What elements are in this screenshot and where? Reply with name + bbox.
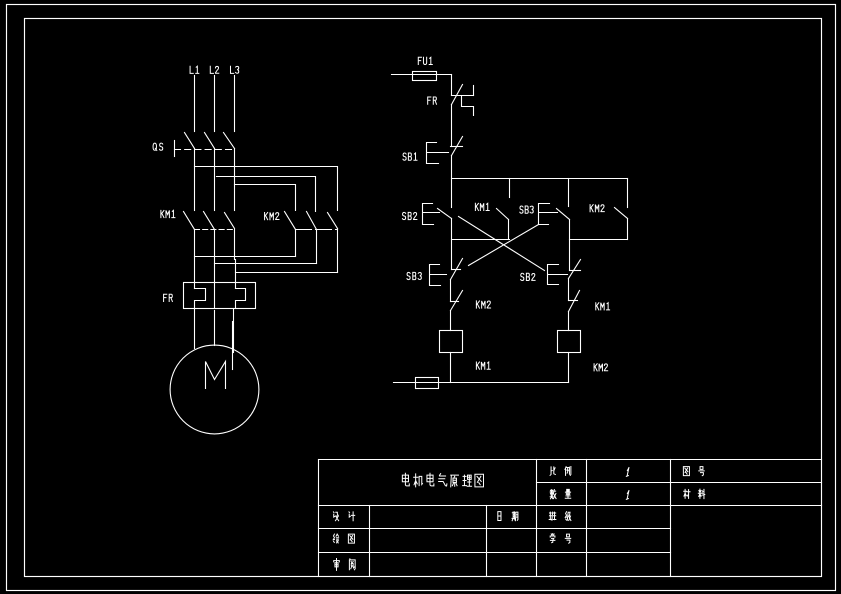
contact KM2 aux top wire [627, 179, 629, 208]
wire self-hold junction right [570, 239, 628, 241]
title block column date divider [486, 506, 488, 577]
title block row divider design-draw [319, 528, 671, 530]
disconnect switch QS blade pole 2 [205, 133, 215, 149]
title block row divider draw-review [319, 552, 671, 554]
disconnect switch QS linkage dashed [175, 149, 236, 151]
wire KM2 pole 3 return to output 3 [236, 272, 338, 274]
title text drawing name 电机电气原理图 [402, 473, 483, 487]
wire KM1 pole 3 down to FR [235, 230, 236, 289]
contactor KM2 blade pole 2 [307, 212, 317, 230]
wire FR to motor phase 2 [214, 311, 216, 346]
wire phase L3 drop [234, 76, 236, 132]
label KM1 aux [475, 203, 489, 210]
label FR control [428, 97, 437, 104]
wire KM1 pole 1 down to FR [194, 230, 196, 289]
wire phase L2 drop [214, 76, 216, 132]
title block column scale-left divider [536, 460, 538, 577]
label L3 [230, 66, 238, 73]
wire rail L1 to KM2 pole 3 [195, 167, 338, 211]
label KM2 power [265, 213, 279, 220]
contact KM2 aux blade [615, 208, 628, 219]
wire KM2 pole 1 return to output 1 [195, 256, 296, 258]
label FR power [164, 294, 173, 301]
wire SB2 down through junction [451, 219, 453, 270]
interlock linkage diagonal SB2 [459, 217, 545, 271]
label SB2 right [521, 273, 535, 280]
thermal relay FR NC contact blade [452, 85, 463, 105]
label QS [153, 143, 163, 150]
motor M circle [170, 345, 259, 434]
wire L3 QS to KM1 [234, 149, 236, 211]
contactor KM1 blade pole 1 [184, 212, 195, 230]
label 学号 student number [550, 534, 571, 544]
wire KM1 pole 2 down to FR [214, 230, 216, 309]
contactor KM1 blade pole 3 [225, 213, 235, 229]
label 比例 scale [550, 466, 571, 475]
label FU1 [418, 57, 432, 64]
contact KM1 NC interlock bar right [569, 300, 578, 302]
contactor KM2 blade pole 3 [328, 213, 338, 229]
label 设计 design [333, 512, 354, 521]
wire bottom rail [394, 382, 569, 384]
wire stub phase 3 overdraw [232, 322, 234, 370]
label 数量 quantity [550, 489, 571, 499]
label SB1 [403, 153, 417, 160]
pushbutton SB2 NC blade right [569, 260, 581, 279]
wire FR to motor phase 3 [233, 309, 235, 353]
pushbutton SB2 actuator bracket right [548, 265, 568, 285]
wire SB1 to top rail and SB2 [451, 156, 453, 208]
thermal relay FR box [184, 283, 256, 309]
label KM2 interlock [476, 301, 490, 308]
wire KM2 pole 2 down [316, 230, 318, 264]
thermal relay FR NC contact bar [452, 95, 474, 97]
wire control supply left [392, 74, 452, 76]
pushbutton SB3 actuator bracket right [539, 204, 558, 225]
label SB2 left [402, 212, 416, 219]
label coil KM2 [594, 364, 608, 371]
wire KM2 NC to coil KM1 [450, 311, 452, 331]
wire right branch top [568, 179, 570, 207]
wire coil KM1 to bottom rail [450, 353, 452, 383]
wire L1 QS to KM1 [194, 149, 196, 211]
motor letter M strokes [206, 362, 226, 389]
wire FR to motor phase 1 [194, 309, 196, 349]
title block column drawingno divider [670, 460, 672, 577]
interlock linkage diagonal SB3 [469, 225, 539, 266]
contact KM2 NC interlock blade [451, 291, 463, 311]
thermal relay FR heater element phase 1 [195, 289, 206, 309]
contactor KM1 linkage dashed [195, 229, 236, 231]
contact KM1 aux top wire [509, 179, 511, 198]
contactor KM2 linkage dashed [296, 229, 338, 231]
wire self-hold junction left [452, 239, 510, 241]
contactor KM1 blade pole 2 [204, 212, 215, 230]
pushbutton SB2 actuator bracket [423, 204, 440, 225]
contactor KM2 blade pole 1 [285, 212, 296, 230]
pushbutton SB3 NO blade right [557, 209, 570, 220]
label KM1 power [161, 210, 175, 217]
label coil KM1 [476, 362, 490, 369]
wire SB3 right down through junction [569, 220, 571, 271]
fuse bottom body [416, 378, 439, 389]
disconnect switch QS blade pole 1 [185, 133, 195, 149]
contact KM2 NC interlock bar [451, 301, 459, 303]
label KM2 aux [590, 205, 604, 212]
pushbutton SB3 actuator bracket left [430, 265, 447, 286]
wire SB3 NC to KM2 NC [450, 280, 452, 302]
label SB3 left [407, 272, 421, 279]
wire rail L2 to KM2 pole 2 [217, 177, 316, 212]
label 日期 date [498, 512, 518, 521]
label SB3 right [520, 206, 533, 213]
wire FU1 corner down [451, 75, 453, 96]
wire top rail [452, 178, 628, 180]
label KM1 interlock [596, 303, 610, 310]
contact KM1 NC interlock blade right [569, 291, 580, 312]
pushbutton SB1 blade [452, 137, 463, 156]
pushbutton SB2 NO blade [438, 209, 452, 219]
label 材料 material [684, 489, 705, 499]
title block column label divider [369, 506, 371, 577]
title block column value divider [586, 460, 588, 577]
thermal relay FR NC contact release hook [462, 96, 474, 116]
label L1 [190, 66, 199, 73]
value scale 1 [626, 468, 629, 477]
disconnect switch QS blade pole 3 [224, 133, 235, 149]
wire KM2 pole 3 down [337, 229, 339, 273]
coil KM1 box [440, 331, 463, 353]
disconnect switch QS actuator bar [174, 141, 176, 157]
wire FR to SB1 [451, 105, 453, 147]
label 图号 drawing number [683, 467, 704, 476]
pushbutton SB3 NC blade left [451, 259, 463, 280]
contact KM2 aux bottom wire [627, 219, 629, 240]
fuse FU1 body [413, 72, 437, 81]
pushbutton SB1 contact bar [451, 146, 463, 148]
wire KM1 NC to coil KM2 [568, 312, 570, 331]
thermal relay FR heater element phase 3 [236, 289, 246, 309]
label L2 [210, 66, 218, 73]
pushbutton SB2 NC contact bar right [570, 270, 581, 272]
title block left edge [318, 460, 320, 577]
wire L2 QS to KM1 [214, 149, 216, 211]
pushbutton SB3 NC contact bar left [452, 269, 461, 271]
label 班级 class [549, 512, 571, 521]
title block top edge [319, 459, 822, 461]
wire coil KM2 to bottom rail [568, 353, 570, 383]
wire SB2 NC to KM1 NC right [568, 279, 570, 301]
wire rail L3 to KM2 pole 1 [235, 185, 296, 211]
pushbutton SB1 actuator bracket [427, 143, 449, 164]
wire phase L1 drop [194, 76, 196, 132]
coil KM2 box [558, 331, 581, 353]
wire KM2 pole 2 return to output 2 [215, 263, 317, 265]
title block divider scale-quantity [537, 482, 822, 484]
contact KM1 aux bottom wire [508, 220, 510, 240]
thermal relay FR NC contact hook up [473, 86, 475, 96]
title block full divider [319, 505, 822, 507]
label 绘图 drawn [333, 534, 354, 543]
contact KM1 aux blade [497, 209, 509, 220]
label 审阅 review [334, 559, 355, 571]
wire KM2 pole 1 down [295, 230, 297, 257]
value quantity 1 [626, 491, 629, 500]
